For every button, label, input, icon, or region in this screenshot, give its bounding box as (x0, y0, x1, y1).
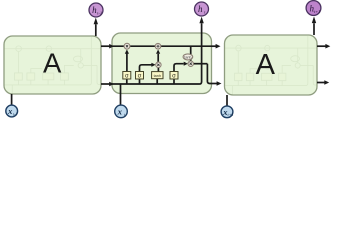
wire: cell-state line C across middle cell (112, 45, 212, 47)
wire: cell-state line C into middle cell (from left cell) (101, 45, 110, 47)
arrowhead: into output multiply node (184, 62, 188, 66)
arrowhead: C into middle cell (109, 44, 114, 49)
gate: candidate tanh box (152, 72, 163, 79)
arrowhead: into candidate multiply node (151, 63, 155, 67)
gate: output sigmoid box (170, 72, 178, 80)
LSTM cell (middle, t) rounded box (112, 33, 212, 94)
wire: cell-state line C out of middle cell (to right cell) (212, 45, 217, 47)
gate: input sigmoid box (136, 72, 144, 80)
svg-text:A: A (43, 48, 62, 79)
pointwise add node on C line (155, 43, 161, 49)
node h_t-1 output circle (89, 3, 103, 17)
wire: forget gate riser to multiply node (126, 53, 128, 71)
wire: h line out of right cell (317, 82, 325, 84)
arrowhead: into forget multiply node (125, 49, 129, 53)
wire: h_t+1 output riser from right cell (313, 23, 315, 35)
wire: input gate elbow to multiply node (140, 65, 152, 72)
cell A (left, t-1) rounded box (4, 36, 101, 94)
arrowhead: C out of middle cell (216, 44, 221, 49)
wire: output gate elbow to output multiply node (174, 64, 184, 72)
svg-text:h: h (198, 4, 203, 14)
cell A (right, t+1) rounded box (225, 35, 318, 95)
svg-text:tanh: tanh (184, 55, 191, 59)
wire: down branch to h exit line (207, 64, 211, 84)
faint internals of left cell (4, 37, 101, 95)
wire: cell-state out of right cell (317, 45, 326, 47)
arrowhead: up to h_t+1 (312, 16, 316, 23)
wire: hidden-state line h across middle cell, corner up to h_t output (112, 23, 202, 84)
node h_t output circle (195, 2, 209, 16)
svg-text:tanh: tanh (154, 74, 161, 78)
wire: h_t-1 output riser from left cell (95, 24, 97, 36)
wire: x_t-1 input riser (11, 94, 13, 105)
svg-text:t+1: t+1 (228, 112, 234, 117)
node h_t+1 output circle (306, 1, 321, 16)
svg-text:σ: σ (138, 74, 142, 80)
svg-text:A: A (256, 49, 276, 81)
wire: h line out of middle cell (to right cell) (212, 83, 218, 85)
wire: output multiply to right junction (193, 63, 207, 65)
wire: hidden-state line h into middle cell (from left cell) (101, 83, 110, 85)
arrowhead: C out of right cell (325, 44, 330, 49)
faint internals of right cell (225, 36, 318, 96)
arrowhead: h out of right cell (324, 80, 329, 85)
svg-text:x: x (117, 107, 123, 117)
arrowhead: h out of middle cell (217, 81, 222, 86)
pointwise multiply node (input x candidate) (156, 62, 161, 67)
pointwise multiply node (forget) on C line (124, 43, 130, 49)
gate: forget sigmoid box (123, 72, 131, 80)
svg-text:t+1: t+1 (314, 9, 320, 14)
wire: cell-state branch down to pointwise tanh (190, 46, 192, 61)
wire: gate input stubs from h line (127, 79, 174, 84)
arrowhead: up to h_t-1 (94, 18, 98, 25)
node x_t input circle (115, 105, 128, 118)
arrowhead: up to h_t (199, 17, 203, 24)
wire: multiply node to add node (157, 54, 159, 62)
node x_t+1 input circle (221, 106, 234, 118)
pointwise tanh oval on output branch (183, 54, 193, 60)
pointwise multiply node (output) (188, 61, 193, 66)
svg-text:t-1: t-1 (97, 11, 102, 16)
node x_t-1 input circle (6, 105, 18, 117)
wire: x_t+1 input riser (226, 95, 228, 106)
svg-text:σ: σ (172, 74, 176, 80)
wire: x_t input riser into h line (120, 84, 122, 105)
svg-text:σ: σ (125, 74, 129, 80)
arrowhead: h into middle cell (109, 82, 114, 87)
wire: candidate tanh box riser to multiply node (157, 68, 159, 72)
svg-text:t-1: t-1 (13, 111, 18, 116)
arrowhead: into add node (156, 50, 160, 54)
